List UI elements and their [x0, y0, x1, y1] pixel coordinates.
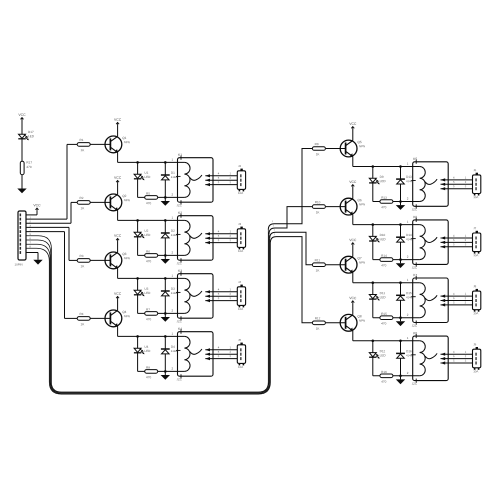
svg-text:JZC: JZC [176, 377, 181, 381]
svg-text:10A: 10A [473, 253, 478, 257]
svg-text:J5: J5 [238, 338, 241, 342]
svg-text:JZC: JZC [412, 208, 417, 212]
svg-text:D2: D2 [171, 229, 175, 233]
svg-text:R3: R3 [79, 254, 83, 258]
svg-text:LED: LED [144, 233, 151, 237]
svg-text:VCC: VCC [349, 296, 357, 300]
svg-text:D4: D4 [171, 345, 175, 349]
svg-text:K6: K6 [413, 215, 417, 219]
svg-text:470: 470 [381, 322, 386, 326]
svg-text:K4: K4 [178, 327, 182, 331]
svg-text:VCC: VCC [349, 180, 357, 184]
svg-text:JZC: JZC [176, 319, 181, 323]
svg-text:R14: R14 [381, 254, 387, 258]
svg-text:R6: R6 [146, 250, 150, 254]
svg-text:LED: LED [380, 237, 387, 241]
svg-text:R12: R12 [315, 316, 321, 320]
svg-text:R2: R2 [79, 196, 83, 200]
svg-text:J2: J2 [238, 164, 241, 168]
svg-text:NPN: NPN [124, 198, 130, 202]
svg-text:K2: K2 [178, 211, 182, 215]
svg-text:D13: D13 [406, 175, 412, 179]
svg-text:D16: D16 [406, 349, 412, 353]
svg-text:10PIN: 10PIN [14, 263, 22, 267]
svg-text:470: 470 [146, 259, 151, 263]
svg-text:JZC: JZC [176, 203, 181, 207]
svg-text:J3: J3 [238, 222, 241, 226]
svg-text:K1: K1 [178, 153, 182, 157]
svg-text:LED: LED [380, 295, 387, 299]
svg-text:NPN: NPN [359, 144, 365, 148]
svg-text:NPN: NPN [124, 314, 130, 318]
svg-text:R10: R10 [315, 200, 321, 204]
svg-text:4148: 4148 [406, 238, 412, 241]
svg-text:J9: J9 [473, 342, 476, 346]
svg-text:NPN: NPN [359, 261, 365, 265]
svg-text:R8: R8 [146, 366, 150, 370]
svg-text:R4: R4 [79, 312, 83, 316]
svg-text:4148: 4148 [406, 180, 412, 183]
svg-text:K5: K5 [413, 157, 417, 161]
svg-text:4148: 4148 [171, 292, 177, 295]
svg-text:4148: 4148 [171, 234, 177, 237]
svg-text:JZC: JZC [412, 382, 417, 386]
svg-text:R5: R5 [146, 192, 150, 196]
svg-text:JZC: JZC [412, 324, 417, 328]
svg-text:LED: LED [144, 349, 151, 353]
svg-text:470: 470 [381, 263, 386, 267]
svg-text:VCC: VCC [349, 122, 357, 126]
svg-text:J4: J4 [238, 280, 241, 284]
svg-text:10A: 10A [473, 311, 478, 315]
svg-text:4148: 4148 [171, 176, 177, 179]
svg-text:D15: D15 [406, 291, 412, 295]
svg-text:10A: 10A [238, 307, 243, 311]
svg-text:NPN: NPN [359, 202, 365, 206]
svg-text:LED: LED [144, 175, 151, 179]
svg-text:470: 470 [381, 205, 386, 209]
svg-text:VCC: VCC [114, 292, 122, 296]
svg-text:470: 470 [146, 375, 151, 379]
svg-text:R7: R7 [146, 308, 150, 312]
svg-text:VCC: VCC [114, 234, 122, 238]
svg-text:J7: J7 [473, 226, 476, 230]
svg-text:LED: LED [28, 134, 35, 138]
svg-text:4148: 4148 [171, 350, 177, 353]
svg-text:VCC: VCC [114, 176, 122, 180]
svg-text:10A: 10A [238, 249, 243, 253]
svg-text:K7: K7 [413, 273, 417, 277]
svg-text:R9: R9 [315, 142, 319, 146]
svg-text:470: 470 [381, 380, 386, 384]
svg-text:470: 470 [146, 317, 151, 321]
svg-text:10A: 10A [473, 195, 478, 199]
svg-text:R17: R17 [26, 161, 32, 165]
svg-text:LED: LED [144, 291, 151, 295]
svg-text:LED: LED [380, 179, 387, 183]
svg-text:10A: 10A [238, 191, 243, 195]
svg-text:J6: J6 [473, 168, 476, 172]
svg-text:D1: D1 [171, 171, 175, 175]
svg-text:D14: D14 [406, 233, 412, 237]
svg-text:K3: K3 [178, 269, 182, 273]
svg-text:K8: K8 [413, 331, 417, 335]
svg-text:JZC: JZC [176, 261, 181, 265]
svg-text:R16: R16 [381, 370, 387, 374]
svg-text:LED: LED [380, 353, 387, 357]
svg-text:NPN: NPN [359, 319, 365, 323]
svg-text:J8: J8 [473, 284, 476, 288]
svg-text:4148: 4148 [406, 296, 412, 299]
svg-text:R11: R11 [315, 258, 321, 262]
svg-text:VCC: VCC [114, 118, 122, 122]
svg-text:10A: 10A [238, 365, 243, 369]
svg-text:VCC: VCC [18, 113, 26, 117]
svg-text:NPN: NPN [124, 256, 130, 260]
svg-text:VCC: VCC [349, 238, 357, 242]
svg-text:10A: 10A [473, 369, 478, 373]
svg-text:R15: R15 [381, 312, 387, 316]
svg-text:R1: R1 [79, 138, 83, 142]
svg-text:NPN: NPN [124, 140, 130, 144]
svg-text:JZC: JZC [412, 266, 417, 270]
svg-text:R13: R13 [381, 196, 387, 200]
svg-text:VCC: VCC [33, 203, 41, 207]
svg-text:470: 470 [26, 165, 31, 169]
svg-text:4148: 4148 [406, 354, 412, 357]
svg-text:470: 470 [146, 201, 151, 205]
svg-text:D3: D3 [171, 287, 175, 291]
